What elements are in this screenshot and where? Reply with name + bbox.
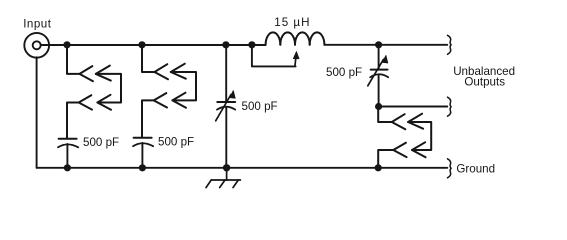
wire bottom rail — [37, 167, 448, 169]
wire tap of L5 — [252, 45, 296, 67]
capacitor C4 (variable) 500 pF — [368, 45, 388, 107]
node dot F (bottom of C4) — [375, 103, 382, 110]
label Input — [23, 17, 52, 30]
node dot B (top of L2) — [138, 41, 145, 48]
node dot A (top of L1) — [63, 41, 70, 48]
node dot C (top of C3) — [222, 41, 229, 48]
svg-text:500 pF: 500 pF — [83, 136, 119, 149]
svg-text:Input: Input — [23, 17, 52, 30]
inductor L5 15 uH (tapped) — [266, 32, 325, 44]
inductor L4 (chevron style, output side) — [378, 107, 431, 168]
wire to unbalanced output 2 — [379, 106, 448, 108]
svg-text:500 pF: 500 pF — [326, 66, 362, 79]
ground symbol — [206, 168, 240, 188]
wire input center to top rail — [41, 44, 266, 46]
node dot H (bottom of C2) — [139, 164, 146, 171]
node J1 shell drop — [36, 57, 38, 168]
terminal unbalanced output 2 — [448, 97, 452, 116]
svg-text:500 pF: 500 pF — [242, 100, 278, 113]
value label C1 — [83, 136, 119, 149]
wire top rail right of L5 — [324, 44, 447, 46]
label Ground — [456, 162, 495, 175]
capacitor C1 500 pF — [58, 139, 78, 168]
input coax connector J1 — [24, 33, 49, 58]
node dot D (tap of L5) — [248, 41, 255, 48]
svg-text:Ground: Ground — [456, 162, 495, 175]
value label C2 — [158, 136, 194, 149]
wire top rail to C3 — [225, 45, 227, 101]
value label C4 — [326, 66, 362, 79]
node dot K (bottom of L4) — [375, 164, 382, 171]
terminal ground output — [448, 159, 452, 178]
capacitor C3 (variable) 500 pF — [216, 91, 236, 168]
svg-text:Outputs: Outputs — [464, 75, 505, 88]
svg-text:500 pF: 500 pF — [158, 136, 194, 149]
tap arrow into L5 — [293, 52, 299, 66]
value label L5 15 uH — [274, 16, 310, 29]
terminal unbalanced output 1 — [448, 35, 452, 54]
node dot E (top of C4) — [375, 41, 382, 48]
node dot G (bottom of C1) — [64, 164, 71, 171]
node dot I (ground junction) — [223, 164, 230, 171]
inductor L1 (variable, chevron style) — [67, 45, 121, 138]
capacitor C2 500 pF — [133, 138, 153, 168]
label Unbalanced Outputs — [453, 65, 515, 88]
svg-text:15 µH: 15 µH — [274, 16, 310, 29]
value label C3 — [242, 100, 278, 113]
inductor L2 (variable, chevron style) — [142, 45, 196, 137]
